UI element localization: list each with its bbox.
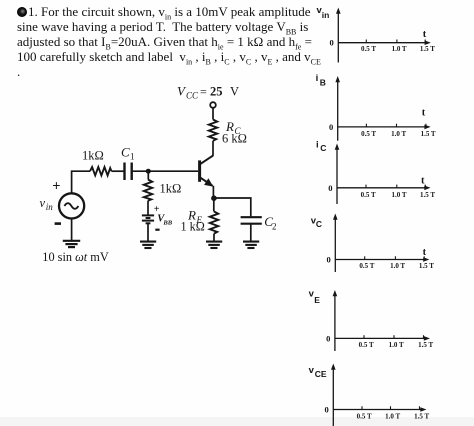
transistor Q1 xyxy=(200,155,214,186)
svg-text:in: in xyxy=(322,10,330,20)
svg-text:0.5 T: 0.5 T xyxy=(359,262,374,270)
wire source to ground xyxy=(71,219,73,241)
svg-text:0.5 T: 0.5 T xyxy=(361,45,376,53)
svg-text:1.5 T: 1.5 T xyxy=(421,130,436,138)
svg-text:1.0 T: 1.0 T xyxy=(391,130,406,138)
label minus battery xyxy=(155,229,159,231)
svg-text:t: t xyxy=(423,247,427,258)
wire C2 to ground xyxy=(250,224,252,241)
svg-text:E: E xyxy=(314,295,320,305)
svg-text:25: 25 xyxy=(210,84,223,98)
graph vC axes xyxy=(311,214,434,273)
resistor R2 base 1k xyxy=(144,180,152,201)
Vcc terminal xyxy=(210,102,216,108)
svg-text:10 sin ωt mV: 10 sin ωt mV xyxy=(42,250,109,264)
svg-text:0: 0 xyxy=(330,38,334,48)
svg-text:t: t xyxy=(422,108,426,119)
svg-text:0: 0 xyxy=(329,122,333,132)
svg-text:1.0 T: 1.0 T xyxy=(392,45,407,53)
graph vCE axes xyxy=(309,364,430,426)
svg-text:V: V xyxy=(230,84,239,98)
ground RE xyxy=(206,242,222,248)
svg-text:CE: CE xyxy=(315,369,327,379)
resistor RC xyxy=(209,120,217,141)
svg-text:1.5 T: 1.5 T xyxy=(420,191,435,199)
svg-text:0: 0 xyxy=(325,405,329,415)
svg-text:v: v xyxy=(40,196,46,210)
svg-text:i: i xyxy=(316,73,319,84)
svg-text:0: 0 xyxy=(326,333,330,343)
svg-text:1.0 T: 1.0 T xyxy=(390,262,405,270)
svg-text:C: C xyxy=(121,145,130,160)
svg-text:=: = xyxy=(200,84,207,98)
svg-text:t: t xyxy=(421,175,425,186)
svg-text:CC: CC xyxy=(186,90,199,100)
svg-text:in: in xyxy=(46,202,54,212)
capacitor C2 xyxy=(241,217,262,224)
svg-text:C: C xyxy=(316,219,322,229)
node base junction xyxy=(146,169,151,174)
node emitter junction xyxy=(211,195,217,201)
ground battery xyxy=(140,242,156,248)
wire emitter down xyxy=(212,186,214,198)
wire base xyxy=(148,170,198,172)
faint bottom scan band xyxy=(0,417,474,426)
wire R1 to C1 xyxy=(112,170,125,172)
graph iB axes xyxy=(316,73,436,141)
wire RE to ground xyxy=(213,234,215,241)
svg-text:BB: BB xyxy=(162,219,172,226)
svg-text:1.0 T: 1.0 T xyxy=(389,341,404,349)
svg-text:1.5 T: 1.5 T xyxy=(418,341,433,349)
svg-text:6 kΩ: 6 kΩ xyxy=(222,132,247,146)
svg-text:1kΩ: 1kΩ xyxy=(82,149,104,163)
label VCC = 25 V xyxy=(177,83,239,100)
svg-text:+: + xyxy=(52,178,60,194)
graph iC axes xyxy=(316,140,435,204)
svg-text:i: i xyxy=(316,140,319,151)
source vin xyxy=(59,193,84,218)
wire RC to collector xyxy=(212,141,214,156)
svg-text:1.0 T: 1.0 T xyxy=(385,413,400,421)
battery VBB xyxy=(142,215,154,223)
svg-text:C: C xyxy=(320,143,326,153)
svg-text:0.5 T: 0.5 T xyxy=(361,191,376,199)
svg-text:0.5 T: 0.5 T xyxy=(357,413,372,421)
svg-text:0.5 T: 0.5 T xyxy=(359,341,374,349)
svg-text:1.0 T: 1.0 T xyxy=(391,191,406,199)
svg-text:0: 0 xyxy=(328,183,332,193)
svg-text:0.5 T: 0.5 T xyxy=(361,130,376,138)
graph vin axes xyxy=(317,5,436,63)
svg-text:t: t xyxy=(423,29,427,40)
wire Vcc to RC xyxy=(212,108,214,120)
resistor RE xyxy=(210,212,218,234)
wire C1 to node xyxy=(132,170,149,172)
wire emitter node to RE xyxy=(213,198,215,212)
capacitor C1 xyxy=(125,163,132,181)
resistor R1 series 1k xyxy=(90,167,112,175)
ground C2 xyxy=(243,242,259,248)
ground source xyxy=(63,241,80,247)
svg-text:1.5 T: 1.5 T xyxy=(419,262,434,270)
wire battery to ground xyxy=(147,223,149,241)
svg-text:2: 2 xyxy=(272,222,277,232)
svg-text:1.5 T: 1.5 T xyxy=(414,413,429,421)
svg-text:1: 1 xyxy=(130,152,135,162)
graph vE axes xyxy=(309,288,434,351)
svg-text:1kΩ: 1kΩ xyxy=(160,182,182,196)
wire source to R1 xyxy=(72,171,90,193)
svg-text:v: v xyxy=(309,365,315,376)
svg-text:1 kΩ: 1 kΩ xyxy=(181,220,205,234)
wire R2 to battery xyxy=(147,201,149,215)
svg-text:1.5 T: 1.5 T xyxy=(420,45,435,53)
wire emitter node to C2 xyxy=(214,198,251,216)
svg-text:0: 0 xyxy=(327,255,331,265)
wire node to R2 xyxy=(147,171,149,179)
svg-text:B: B xyxy=(320,78,326,88)
label minus source xyxy=(55,222,61,225)
